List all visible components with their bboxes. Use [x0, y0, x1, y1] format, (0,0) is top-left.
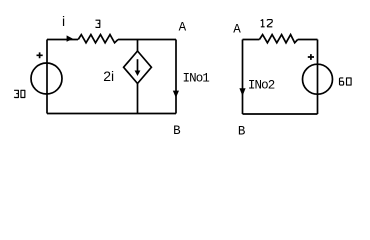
wire stem of dependent source circuit 1 [137, 40, 139, 114]
arrowhead inside dependent source [135, 71, 141, 77]
resistor R2 value 12 zigzag [259, 35, 297, 43]
value label 60 digit 0 [347, 78, 352, 85]
voltage source V1 circle 30V [31, 63, 62, 94]
wire right side circuit 2 [317, 40, 319, 115]
svg-text:B: B [238, 125, 246, 139]
wire left side circuit 1 [46, 40, 48, 114]
value label 30 digit 3 [14, 90, 18, 97]
plus sign of V1 [37, 52, 43, 58]
wire top-left segment circuit 2 [243, 39, 260, 41]
wire top-right segment circuit 1 [118, 39, 176, 41]
svg-text:INo1: INo1 [183, 71, 210, 85]
arrowhead INo2 on left wire circuit 2 [239, 88, 245, 96]
wire top-right segment circuit 2 [298, 39, 318, 41]
svg-text:i: i [62, 13, 65, 29]
svg-text:INo2: INo2 [248, 79, 275, 93]
wire bottom circuit 2 [243, 113, 318, 115]
arrow stem inside dependent source [137, 59, 139, 72]
value label 12 digit 2 [267, 20, 272, 27]
svg-text:A: A [233, 23, 241, 37]
wire left side circuit 2 (node A to B) [242, 40, 244, 115]
voltage source V2 circle 60V [303, 64, 333, 94]
wire right side circuit 1 (node A to B) [175, 40, 177, 114]
svg-text:B: B [173, 124, 181, 138]
current arrow i on top wire [67, 35, 73, 41]
value label 30 digit 0 [21, 90, 25, 97]
svg-text:A: A [179, 21, 187, 35]
value label 12 digit 1 [261, 20, 265, 27]
resistor R1 value 3 zigzag [78, 35, 118, 43]
wire top-left segment circuit 1 [47, 39, 78, 41]
plus sign of V2 [308, 54, 314, 60]
dependent current source diamond 2i [124, 51, 152, 84]
wire bottom circuit 1 [47, 113, 176, 115]
value label 60 digit 6 [340, 78, 344, 85]
value label 3 of resistor R1 [96, 20, 100, 27]
arrowhead INo1 on right wire circuit 1 [173, 91, 179, 98]
svg-text:2i: 2i [103, 68, 114, 84]
